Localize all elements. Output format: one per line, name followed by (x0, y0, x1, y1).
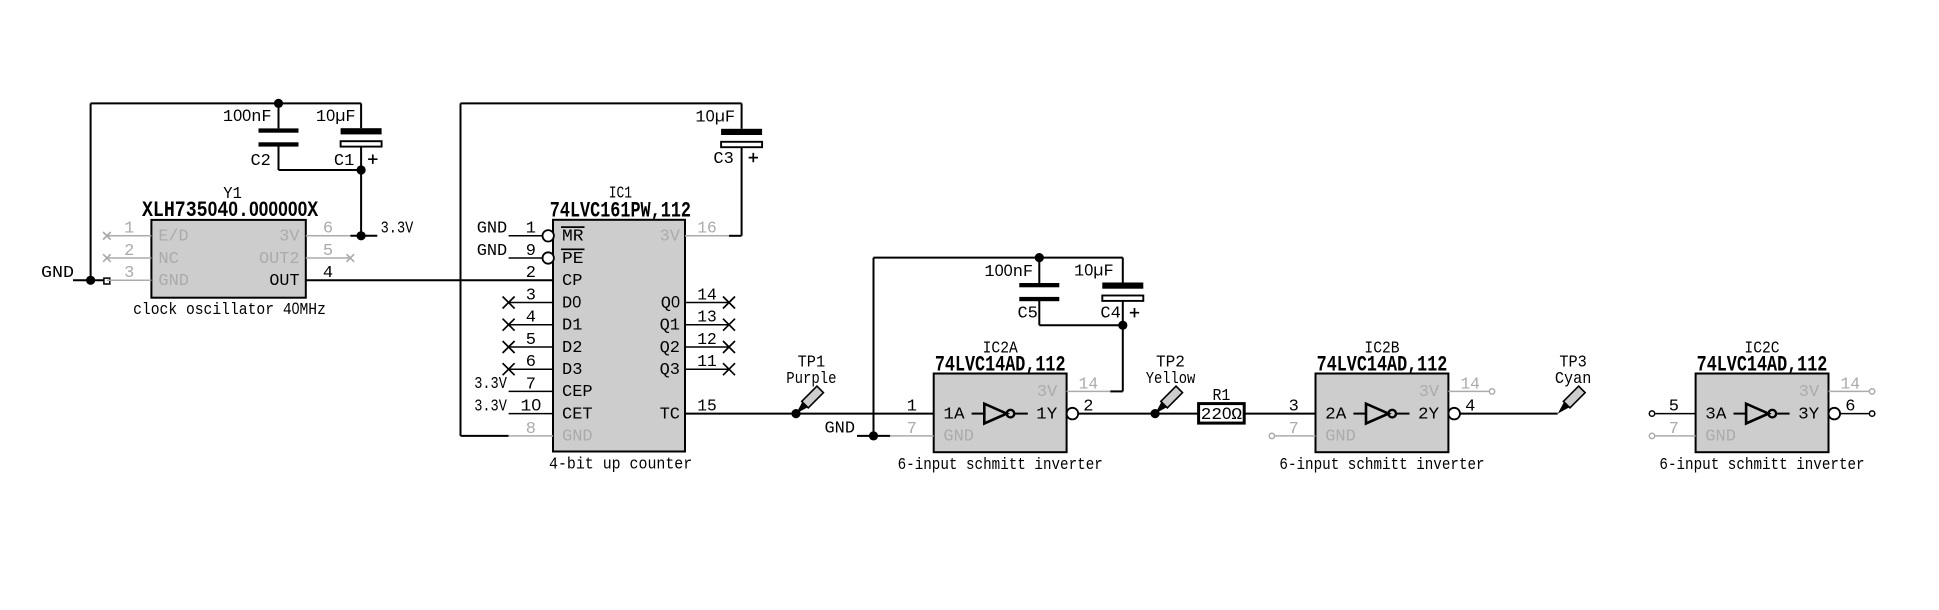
svg-text:3.3V: 3.3V (381, 220, 414, 239)
svg-text:CEP: CEP (562, 383, 593, 402)
junction C1-C2 bottom (357, 165, 366, 174)
svg-text:GND: GND (477, 220, 508, 239)
IC1 pin 1 MR (inverted) (509, 235, 543, 237)
svg-text:XLH735040.000000X: XLH735040.000000X (142, 198, 319, 223)
svg-text:6-input schmitt inverter: 6-input schmitt inverter (898, 456, 1103, 475)
svg-text:2: 2 (526, 264, 536, 283)
IC2B pin 7 GND (1272, 435, 1316, 437)
Y1 pin 3 GND (107, 279, 151, 281)
IC2B gate symbol (1353, 413, 1366, 415)
wire IC2A output to R1 (1078, 413, 1198, 415)
svg-text:4-bit up counter: 4-bit up counter (549, 456, 692, 475)
IC2C pin 5 line (unconnected) (1652, 413, 1696, 415)
svg-text:GND: GND (158, 272, 189, 291)
svg-text:74LVC14AD,112: 74LVC14AD,112 (1317, 352, 1448, 377)
wire C3 to IC1 pin 16 (729, 235, 742, 237)
IC1 pin 12 Q2 (no-connect) (685, 346, 729, 348)
svg-text:NC: NC (158, 250, 178, 269)
svg-text:3: 3 (124, 264, 134, 283)
svg-text:11: 11 (697, 353, 717, 372)
svg-text:10: 10 (520, 397, 541, 417)
junction TP2 (1151, 409, 1160, 418)
svg-text:MR: MR (562, 228, 584, 247)
wire C4 bottom lead down to pin 14 (1122, 301, 1124, 391)
svg-text:74LVC14AD,112: 74LVC14AD,112 (935, 352, 1066, 377)
svg-text:R1: R1 (1212, 387, 1230, 406)
svg-text:3: 3 (1289, 398, 1299, 417)
dangling-end square at oscillator pin 3 (104, 278, 110, 284)
svg-text:14: 14 (1841, 375, 1861, 394)
svg-text:clock oscillator 40MHz: clock oscillator 40MHz (133, 300, 326, 320)
svg-text:3V: 3V (1037, 383, 1058, 402)
capacitor C1 10uF polarized (316, 107, 382, 171)
svg-text:6: 6 (526, 353, 536, 372)
wire GND top-left horizontal (91, 102, 362, 104)
IC2C pin 14 3V (1829, 390, 1873, 392)
IC1 74LVC161PW,112 4-bit up counter (474, 185, 735, 475)
wire to IC2A pin 14 (1110, 390, 1123, 392)
svg-text:3V: 3V (279, 228, 300, 247)
svg-text:2: 2 (1083, 398, 1093, 417)
svg-text:14: 14 (1079, 375, 1099, 394)
svg-text:D0: D0 (562, 293, 581, 313)
svg-text:6: 6 (323, 220, 333, 239)
svg-text:100nF: 100nF (223, 107, 272, 127)
svg-text:Q1: Q1 (660, 317, 680, 336)
svg-text:3A: 3A (1705, 405, 1727, 424)
IC2B pin 14 3V (1448, 390, 1492, 392)
IC2C pin 7 GND (1652, 435, 1696, 437)
wire C2 bottom lead (278, 146, 280, 170)
svg-text:C4: C4 (1100, 304, 1120, 323)
capacitor C3 10uF polarized (695, 108, 762, 169)
svg-text:1: 1 (526, 220, 536, 239)
IC2C gate symbol (1734, 413, 1747, 415)
IC2A pin 7 GND (890, 435, 934, 437)
IC1 pin 4 D1 (no-connect) (509, 324, 553, 326)
test point TP2 Yellow (1146, 353, 1196, 416)
IC2B pin 14 unconnected circle (1489, 389, 1494, 394)
svg-text:10µF: 10µF (1074, 261, 1114, 281)
svg-text:C3: C3 (713, 150, 733, 169)
svg-text:8: 8 (526, 420, 536, 439)
svg-text:C5: C5 (1017, 304, 1037, 323)
svg-text:3: 3 (526, 286, 536, 305)
capacitor C4 10uF polarized (1074, 261, 1143, 323)
IC1 pin 11 Q3 (no-connect) (685, 368, 729, 370)
Y1 pin 2 NC (107, 257, 151, 259)
wire GND label to oscillator pin 3 (73, 279, 107, 281)
test point TP3 Cyan (1554, 353, 1591, 416)
svg-text:7: 7 (1669, 420, 1679, 439)
svg-text:GND: GND (825, 420, 856, 439)
svg-text:10µF: 10µF (695, 108, 735, 128)
wire 3.3V stub at oscillator pin 6 (350, 235, 377, 237)
IC1 pin 8 GND (509, 435, 553, 437)
wire C3 top lead (741, 103, 743, 128)
svg-text:74LVC161PW,112: 74LVC161PW,112 (550, 198, 691, 223)
svg-text:7: 7 (907, 420, 917, 439)
svg-text:GND: GND (477, 242, 508, 261)
svg-text:2: 2 (124, 242, 134, 261)
svg-text:3V: 3V (660, 228, 681, 247)
svg-text:3.3V: 3.3V (474, 375, 507, 394)
svg-text:D3: D3 (562, 361, 582, 380)
svg-text:OUT: OUT (269, 272, 299, 291)
svg-text:14: 14 (1460, 375, 1480, 394)
svg-text:3Y: 3Y (1798, 405, 1819, 424)
svg-text:12: 12 (697, 331, 717, 350)
wire GND label to IC2A pin 7 (857, 435, 890, 437)
svg-text:7: 7 (1289, 420, 1299, 439)
wire C4 top lead (1122, 258, 1124, 283)
svg-text:100nF: 100nF (984, 262, 1033, 282)
svg-text:Q2: Q2 (660, 339, 680, 358)
svg-text:TC: TC (660, 405, 680, 424)
IC1 pin 5 D2 (no-connect) (509, 346, 553, 348)
junction C5 top (1035, 253, 1044, 262)
svg-text:1Y: 1Y (1036, 405, 1057, 424)
IC2B pin 7 unconnected circle (1269, 433, 1274, 438)
svg-text:1A: 1A (943, 405, 965, 424)
svg-text:1: 1 (124, 220, 134, 239)
svg-text:Q3: Q3 (660, 361, 680, 380)
wire C3 bottom lead down to pin 16 (741, 145, 743, 236)
svg-text:3V: 3V (1419, 383, 1440, 402)
IC2C pin 7 unconnected circle (1649, 433, 1654, 438)
svg-text:E/D: E/D (158, 228, 188, 247)
capacitor C5 100nF (984, 262, 1059, 324)
svg-text:GND: GND (943, 428, 974, 447)
IC1 pin 16 3V (685, 235, 729, 237)
wire OUT to CP (306, 279, 553, 281)
svg-text:4: 4 (323, 264, 333, 283)
svg-text:2Y: 2Y (1418, 405, 1439, 424)
junction 3.3V at C1 (357, 231, 366, 240)
svg-text:D1: D1 (562, 317, 582, 336)
wire C5 bottom lead (1038, 301, 1040, 326)
wire IC1 decoupling loop top (461, 102, 742, 104)
svg-text:3.3V: 3.3V (474, 397, 507, 416)
wire C5 top lead (1038, 258, 1040, 283)
svg-text:C1: C1 (334, 152, 354, 171)
schmitt inverter IC2C 74LVC14AD,112 (1652, 339, 1872, 475)
schmitt inverter IC2B 74LVC14AD,112 (1272, 339, 1492, 475)
IC1 pin 14 Q0 (no-connect) (685, 302, 729, 304)
wire GND left vertical (90, 103, 92, 280)
svg-text:10µF: 10µF (316, 107, 356, 127)
wire C2 top lead (278, 103, 280, 128)
junction TP1 (791, 409, 800, 418)
Y1 pin 6 3V (306, 235, 351, 237)
svg-text:13: 13 (697, 309, 717, 328)
svg-text:Purple: Purple (786, 370, 836, 389)
svg-text:GND: GND (41, 264, 74, 283)
svg-text:Cyan: Cyan (1555, 370, 1591, 389)
IC1 pin 10 CET (509, 413, 553, 415)
Y1 pin 5 OUT2 (306, 257, 351, 259)
svg-text:5: 5 (323, 242, 333, 261)
wire IC2A GND net vertical (873, 258, 875, 436)
wire IC1 decoupling loop left vertical (460, 103, 462, 436)
IC2A gate symbol (972, 413, 985, 415)
svg-text:6-input schmitt inverter: 6-input schmitt inverter (1279, 456, 1484, 475)
svg-text:GND: GND (562, 428, 593, 447)
svg-text:Yellow: Yellow (1146, 370, 1196, 389)
svg-text:Q0: Q0 (661, 293, 680, 313)
IC1 pin 9 PE (inverted) (509, 257, 543, 259)
svg-text:C2: C2 (250, 152, 270, 171)
IC1 pin 7 CEP (509, 390, 553, 392)
resistor R1 220ohm (1199, 387, 1245, 425)
junction GND at left vertical (86, 276, 95, 285)
Y1 pin 1 E/D (107, 235, 151, 237)
IC2C pin 14 unconnected circle (1869, 389, 1874, 394)
svg-text:220Ω: 220Ω (1201, 405, 1242, 425)
wire C2 to C1 bottom horizontal (279, 169, 362, 171)
svg-text:5: 5 (526, 331, 536, 350)
wire IC2B output to TP3 (1460, 413, 1558, 415)
svg-text:1: 1 (907, 398, 917, 417)
IC2A pin output 1Y (inverting bubble) (1067, 408, 1079, 420)
IC2A pin 14 3V (1067, 390, 1111, 392)
svg-text:OUT2: OUT2 (259, 250, 300, 269)
wire C5/C4 top horizontal (874, 257, 1123, 259)
wire R1 to IC2B input 2A (1244, 413, 1315, 415)
svg-text:PE: PE (562, 250, 584, 269)
svg-text:GND: GND (1325, 428, 1356, 447)
svg-text:74LVC14AD,112: 74LVC14AD,112 (1697, 352, 1828, 377)
junction C2 top (274, 99, 283, 108)
schmitt inverter IC2A 74LVC14AD,112 (890, 339, 1110, 475)
IC2B pin output 2Y (inverting bubble) (1448, 408, 1460, 420)
clock oscillator Y1 XLH735040.000000X (103, 185, 354, 320)
svg-text:CET: CET (562, 405, 593, 424)
svg-text:9: 9 (526, 242, 536, 261)
IC2C pin 6 output line (unconnected) (1840, 413, 1872, 415)
wire C5 to C4 bottom horizontal (1039, 324, 1123, 326)
svg-text:4: 4 (1465, 398, 1475, 417)
wire C1 bottom lead down to 3.3V net (360, 146, 362, 236)
wire IC1 decoupling loop bottom to pin 8 (461, 435, 509, 437)
svg-text:14: 14 (697, 286, 717, 305)
IC2C pin output 3Y (inverting bubble) (1829, 408, 1841, 420)
junction C4 bottom (1118, 321, 1127, 330)
IC1 pin 6 D3 (no-connect) (509, 368, 553, 370)
svg-text:D2: D2 (562, 339, 582, 358)
svg-text:7: 7 (526, 375, 536, 394)
svg-text:15: 15 (697, 398, 717, 417)
svg-text:3V: 3V (1799, 383, 1820, 402)
wire C1 top lead (360, 103, 362, 128)
test point TP1 Purple (786, 353, 836, 416)
wire TC to IC2A input 1A (685, 413, 934, 415)
svg-text:CP: CP (562, 272, 582, 291)
svg-text:2A: 2A (1325, 405, 1347, 424)
svg-text:4: 4 (526, 309, 536, 328)
svg-text:16: 16 (697, 220, 717, 239)
IC1 pin 13 Q1 (no-connect) (685, 324, 729, 326)
IC1 pin 3 D0 (no-connect) (509, 302, 553, 304)
capacitor C2 100nF (223, 107, 299, 171)
svg-text:GND: GND (1705, 428, 1736, 447)
svg-text:6-input schmitt inverter: 6-input schmitt inverter (1659, 456, 1864, 475)
junction GND at IC2A (869, 431, 878, 440)
